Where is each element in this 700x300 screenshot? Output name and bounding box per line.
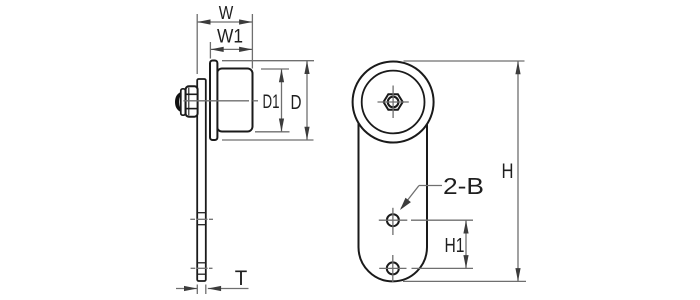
svg-text:D: D <box>291 92 302 114</box>
svg-text:D1: D1 <box>263 92 280 113</box>
svg-text:W: W <box>219 2 234 23</box>
svg-text:T: T <box>235 267 248 290</box>
svg-text:2-B: 2-B <box>443 173 484 199</box>
svg-text:W1: W1 <box>217 27 243 48</box>
svg-text:H1: H1 <box>445 234 465 257</box>
svg-text:H: H <box>502 160 514 183</box>
